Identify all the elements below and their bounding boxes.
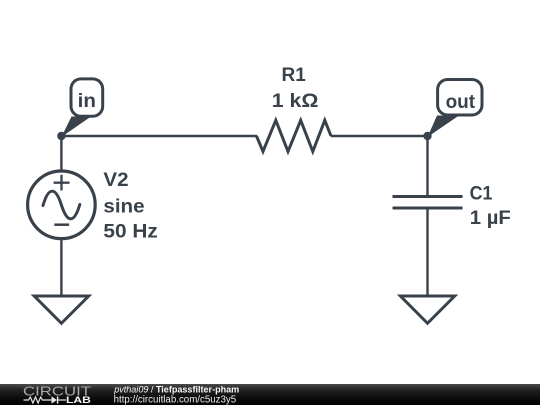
svg-text:V2: V2 <box>103 170 128 191</box>
svg-text:http://circuitlab.com/c5uz3y5: http://circuitlab.com/c5uz3y5 <box>114 394 237 405</box>
svg-text:50 Hz: 50 Hz <box>103 222 157 243</box>
node flag out: tail <box>428 116 460 138</box>
logo schematic mark: wire zigzag diode <box>24 397 67 403</box>
svg-text:in: in <box>78 91 96 112</box>
wire: V2 bottom terminal to left ground <box>60 238 62 296</box>
wire: R1 right lead to node out <box>331 135 428 137</box>
node dot out <box>423 132 431 140</box>
node flag in: tail <box>61 117 91 138</box>
node flag out: box <box>438 80 482 116</box>
svg-text:LAB: LAB <box>66 395 91 405</box>
svg-text:sine: sine <box>103 196 144 217</box>
ground symbol right <box>400 296 454 323</box>
svg-text:1 kΩ: 1 kΩ <box>272 91 319 112</box>
logo diode bar <box>57 396 59 403</box>
capacitor C1 plates <box>393 197 463 209</box>
wire: node in to V2 top terminal <box>60 136 62 172</box>
voltage source V2 body <box>28 171 96 239</box>
wire: node out down to C1 top plate <box>426 136 428 197</box>
svg-text:C1: C1 <box>470 183 493 204</box>
ground symbol left <box>34 296 88 323</box>
svg-text:out: out <box>446 92 476 113</box>
label V2 value: name sine 50 Hz <box>103 170 157 243</box>
logo diode triangle <box>52 396 58 403</box>
wire: main horizontal from node in to R1 left lead <box>61 135 257 137</box>
footer bar <box>0 384 540 405</box>
svg-text:1 µF: 1 µF <box>470 208 511 229</box>
node dot in <box>57 132 65 140</box>
svg-text:pvthai09 / Tiefpassfilter-pham: pvthai09 / Tiefpassfilter-pham <box>113 384 239 394</box>
resistor R1 zigzag <box>257 120 332 151</box>
node flag in: box <box>71 79 103 116</box>
svg-text:R1: R1 <box>282 65 307 86</box>
wire: C1 bottom plate down to right ground <box>426 208 428 296</box>
